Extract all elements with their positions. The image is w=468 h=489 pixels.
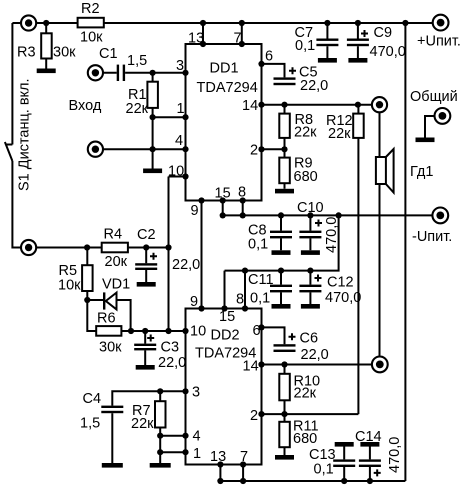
wire R5 bottom lead down to R6 row	[87, 291, 96, 331]
resistor R11	[279, 422, 290, 447]
wire DD1 pin7 riser	[241, 23, 243, 44]
svg-text:C6: C6	[300, 331, 319, 347]
wire C13 leads	[343, 447, 345, 482]
svg-text:22к: 22к	[131, 416, 154, 432]
svg-text:VD1: VD1	[102, 277, 130, 293]
svg-text:C2: C2	[137, 227, 156, 243]
svg-text:R6: R6	[97, 311, 116, 327]
svg-text:0,1: 0,1	[295, 38, 315, 54]
svg-text:R2: R2	[81, 1, 100, 17]
svg-text:22к: 22к	[294, 386, 317, 402]
resistor R4	[102, 243, 128, 253]
wire mute line (DD1 pin10 to DD2 pin10 rail)	[168, 177, 170, 332]
svg-text:470,0: 470,0	[325, 290, 361, 306]
terminal -U	[432, 208, 448, 224]
svg-text:8: 8	[238, 185, 246, 201]
wire DD2 pin4 row	[160, 435, 185, 437]
svg-text:22к: 22к	[328, 126, 351, 142]
svg-text:680: 680	[294, 169, 318, 185]
ground above C13	[335, 442, 354, 447]
terminal +U	[433, 15, 449, 31]
plus C6	[289, 333, 296, 340]
svg-text:22,0: 22,0	[158, 355, 186, 371]
wire C8 leads	[280, 215, 282, 250]
ground above C14	[360, 442, 379, 447]
svg-text:20к: 20к	[105, 254, 128, 270]
svg-text:7: 7	[234, 31, 242, 47]
svg-text:22,0: 22,0	[301, 347, 329, 363]
svg-text:22к: 22к	[294, 125, 317, 141]
wire left rail lower (S1 to lower terminal)	[12, 161, 101, 248]
svg-text:15: 15	[219, 309, 235, 325]
wire C9 leads	[357, 23, 359, 58]
svg-text:7: 7	[240, 449, 248, 465]
svg-text:DD1: DD1	[210, 61, 239, 77]
svg-text:6: 6	[265, 49, 273, 65]
capacitor C4	[101, 406, 123, 414]
capacitor C6	[274, 344, 296, 352]
wire DD1 output rail pin14	[262, 104, 372, 106]
svg-text:15: 15	[215, 186, 231, 202]
resistor R10	[279, 374, 290, 401]
terminal input hot	[88, 65, 103, 80]
ground under C8	[272, 250, 291, 255]
resistor R6	[96, 326, 121, 336]
svg-text:10к: 10к	[58, 278, 81, 294]
wire left rail upper (to S1)	[11, 23, 13, 145]
ground under C10	[301, 250, 320, 255]
ground under R1	[143, 169, 162, 174]
svg-text:-Uпит.: -Uпит.	[412, 229, 452, 245]
ground under C4	[102, 463, 123, 468]
capacitor C10	[299, 231, 321, 239]
wire C2 leads	[145, 248, 147, 283]
svg-text:3: 3	[192, 385, 200, 401]
op-amp IC DD1 TDA7294	[186, 44, 262, 201]
wire right +U rail	[404, 23, 406, 481]
resistor R1	[147, 82, 158, 108]
svg-text:Вход: Вход	[69, 98, 102, 114]
diode VD1	[103, 292, 117, 309]
capacitor C14	[359, 459, 381, 467]
wire bottom +U rail	[220, 480, 405, 482]
wire DD1 pin2 row	[262, 148, 285, 150]
svg-text:0,1: 0,1	[314, 462, 334, 478]
svg-text:30к: 30к	[53, 45, 76, 61]
svg-text:C14: C14	[355, 429, 382, 445]
svg-text:10к: 10к	[80, 30, 103, 46]
svg-text:C12: C12	[327, 275, 354, 291]
wire C14 leads	[369, 447, 371, 482]
terminal speaker bottom	[372, 357, 388, 373]
plus C14	[374, 469, 381, 476]
svg-text:13: 13	[210, 449, 226, 465]
ground under R11	[275, 455, 294, 460]
capacitor C8	[270, 231, 292, 239]
wire C12 leads	[309, 271, 311, 304]
resistor R3	[41, 33, 52, 58]
wire C3 leads	[144, 331, 146, 365]
wire C7 leads	[326, 23, 328, 58]
wire R5 top lead	[86, 248, 88, 266]
svg-text:Гд1: Гд1	[410, 164, 433, 180]
capacitor C9	[347, 39, 369, 47]
svg-text:3: 3	[176, 58, 184, 74]
svg-text:13: 13	[188, 31, 204, 47]
ground under C12	[301, 304, 320, 309]
svg-text:TDA7294: TDA7294	[197, 80, 258, 96]
svg-text:470,0: 470,0	[324, 217, 340, 253]
op-amp IC DD2 TDA7294	[186, 309, 262, 465]
resistor R9	[279, 158, 290, 184]
wire DD1 pin4 row (input gnd jack to DD1)	[103, 148, 186, 150]
resistor R7	[155, 401, 166, 427]
speaker Gd1	[376, 149, 394, 193]
ground under C11	[272, 304, 291, 309]
svg-text:14: 14	[242, 98, 258, 114]
svg-text:R3: R3	[17, 45, 36, 61]
svg-text:30к: 30к	[99, 340, 122, 356]
wire DD2 pin15/8 risers	[225, 271, 246, 309]
svg-text:R4: R4	[104, 227, 123, 243]
svg-text:4: 4	[193, 429, 201, 445]
terminal top-left	[21, 15, 36, 30]
capacitor C1	[117, 65, 125, 81]
capacitor C11	[270, 285, 292, 293]
wire pin9 line DD1 to DD2	[201, 201, 203, 309]
svg-text:+Uпит.: +Uпит.	[417, 34, 461, 50]
svg-text:22,0: 22,0	[300, 78, 328, 94]
resistor R8	[279, 114, 290, 138]
wire R12 leads (DD1 out to DD2 pin2)	[357, 105, 359, 414]
wire Obshchiy terminal to ground	[425, 116, 435, 138]
plus C9	[361, 30, 368, 37]
wire DD2 output rail pin14	[262, 364, 373, 366]
terminal S1 lower	[21, 240, 36, 255]
ground under C3	[136, 365, 155, 370]
svg-text:C1: C1	[99, 46, 118, 62]
svg-text:0,1: 0,1	[248, 237, 268, 253]
ground under C7	[318, 58, 337, 63]
svg-text:22к: 22к	[126, 101, 149, 117]
wire DD2 pin1 row	[160, 451, 185, 453]
wire VD1 row	[87, 300, 130, 331]
wire DD2 -Vs rail with riser to -U rail	[225, 215, 339, 270]
wire R7 leads	[159, 391, 161, 463]
terminal Obshchiy	[435, 108, 451, 124]
svg-text:1,5: 1,5	[80, 416, 100, 432]
ground at Obshchiy terminal	[416, 138, 435, 143]
capacitor C7	[316, 39, 338, 47]
wire -U rail (DD1 -Vs to -U terminal)	[223, 214, 433, 216]
plus C10	[315, 220, 322, 227]
terminal speaker top	[372, 97, 387, 112]
wire DD2 pin6 to C6	[262, 327, 285, 344]
plus C5	[289, 67, 296, 74]
resistor R2	[78, 18, 104, 28]
wire R10 leads	[284, 365, 286, 415]
capacitor C5	[274, 77, 296, 85]
svg-text:C3: C3	[161, 340, 180, 356]
svg-text:22,0: 22,0	[172, 257, 200, 273]
svg-text:1: 1	[177, 101, 185, 117]
capacitor C2	[135, 263, 157, 270]
svg-text:1: 1	[193, 446, 201, 462]
svg-text:C4: C4	[83, 391, 102, 407]
svg-text:470,0: 470,0	[387, 437, 403, 473]
svg-text:680: 680	[293, 431, 317, 447]
wire R8 leads	[284, 105, 286, 150]
svg-text:9: 9	[190, 294, 198, 310]
svg-text:470,0: 470,0	[370, 44, 406, 60]
wire DD2 pin2 row	[262, 413, 359, 415]
svg-text:DD2: DD2	[211, 328, 240, 344]
wire DD1 pin1 row	[153, 116, 186, 118]
wire C10 leads	[309, 215, 311, 250]
ground under R7	[150, 463, 171, 468]
svg-text:Общий: Общий	[410, 89, 458, 105]
wire R3 leads	[45, 23, 47, 69]
switch S1	[5, 142, 12, 161]
ground under C9	[348, 58, 367, 63]
svg-text:6: 6	[253, 323, 261, 339]
wire DD1 pin6 to C5	[262, 64, 285, 78]
ground under C2	[137, 282, 156, 287]
wire DD1 pin13 riser	[202, 23, 204, 44]
svg-text:2: 2	[250, 143, 258, 159]
svg-text:S1 Дистанц. вкл.: S1 Дистанц. вкл.	[17, 78, 33, 191]
svg-text:10: 10	[168, 164, 184, 180]
wire R6/C3/pin10 rail	[121, 330, 185, 332]
svg-text:10: 10	[190, 324, 206, 340]
wire DD2 pin3 row with C4 lead	[112, 391, 185, 405]
wire C4 bottom lead	[111, 413, 113, 463]
svg-text:2: 2	[250, 408, 258, 424]
ground under R3	[37, 69, 56, 74]
wire top +U rail	[12, 22, 433, 24]
wire DD2 pin13/7 stubs	[220, 465, 243, 482]
svg-text:9: 9	[191, 203, 199, 219]
wire R1 vertical (pin3 node down to ground)	[152, 73, 154, 169]
plus C12	[315, 275, 322, 282]
wire DD1 pin10 stub	[169, 176, 186, 178]
resistor R12	[353, 114, 364, 138]
svg-text:0,1: 0,1	[250, 291, 270, 307]
wire R4 rail to mute line corner	[128, 247, 169, 249]
terminal input gnd	[88, 142, 103, 157]
svg-text:8: 8	[236, 292, 244, 308]
plus C3	[147, 335, 154, 342]
wire R9 leads	[284, 149, 286, 189]
wire input top row (jack to C1 to DD1 pin3)	[103, 72, 186, 74]
wire C11 leads	[280, 271, 282, 304]
plus C2	[150, 253, 157, 260]
wire R11 leads	[284, 414, 286, 455]
svg-text:C10: C10	[297, 200, 324, 216]
capacitor C12	[299, 285, 321, 293]
wire speaker leads	[379, 105, 381, 365]
wire DD1 pin15/8 stubs to -V rail	[223, 201, 243, 216]
ground under R9	[275, 189, 294, 194]
svg-text:C11: C11	[248, 272, 274, 288]
svg-text:14: 14	[243, 359, 259, 375]
capacitor C13	[333, 459, 355, 467]
svg-text:C9: C9	[374, 25, 393, 41]
svg-text:4: 4	[175, 133, 183, 149]
resistor R5	[82, 265, 93, 291]
svg-text:1,5: 1,5	[127, 53, 147, 69]
capacitor C3	[134, 344, 156, 351]
